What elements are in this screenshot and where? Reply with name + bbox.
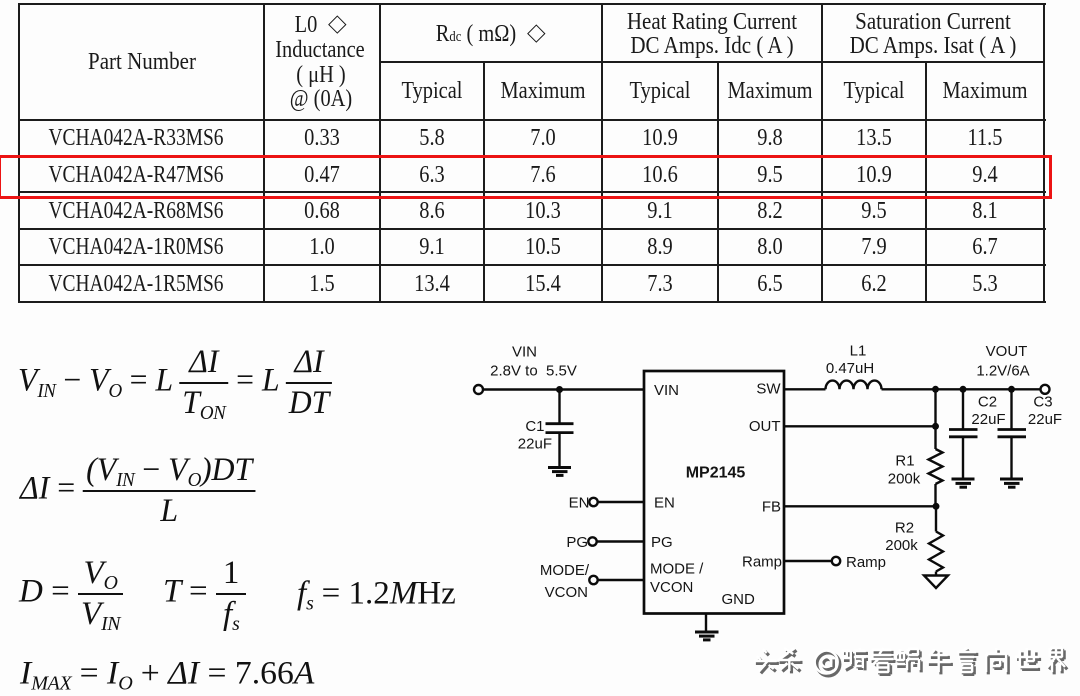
svg-text:C1: C1 bbox=[525, 418, 544, 435]
wire GND pin to ground bbox=[705, 614, 707, 632]
wire EN terminal to IC pin EN bbox=[598, 501, 644, 503]
watermark shadow bbox=[756, 650, 1067, 676]
wire MODE/VCON terminal to IC pin bbox=[598, 579, 644, 581]
wire OUT pin to VOUT node bbox=[784, 425, 936, 427]
wire Ramp pin to Ramp terminal bbox=[784, 560, 832, 562]
row lines bbox=[18, 155, 1046, 157]
terminal PG bbox=[588, 537, 596, 545]
junction node VOUT-C3 bbox=[1008, 386, 1015, 393]
svg-text:GND: GND bbox=[722, 591, 756, 608]
wire VOUT node down to C2 bbox=[962, 389, 964, 429]
junction node VIN-C1 bbox=[556, 386, 563, 393]
watermark white top bbox=[754, 648, 1065, 674]
capacitor C1 bbox=[546, 422, 574, 425]
ground below C3 bbox=[1000, 478, 1023, 481]
wire FB node down to R2 bbox=[935, 506, 937, 531]
wire R2 to ground triangle bbox=[935, 572, 937, 576]
svg-text:EN: EN bbox=[654, 494, 675, 511]
horizontal header split bbox=[379, 61, 1045, 63]
svg-text:MODE/: MODE/ bbox=[540, 562, 590, 579]
terminal EN bbox=[589, 498, 597, 506]
svg-text:Ramp: Ramp bbox=[742, 553, 782, 570]
terminal MODE/VCON bbox=[589, 576, 597, 584]
wire L1 to VOUT terminal bbox=[882, 388, 1042, 390]
svg-text:R2: R2 bbox=[895, 519, 914, 536]
svg-text:VCON: VCON bbox=[650, 579, 693, 596]
ground below C2 bbox=[952, 478, 975, 481]
junction node OUT-R1 bbox=[932, 423, 939, 430]
junction node VOUT-R1 bbox=[932, 386, 939, 393]
svg-text:PG: PG bbox=[566, 534, 588, 551]
IC U1 MP2145 body bbox=[644, 371, 784, 614]
wire FB pin to divider node bbox=[784, 505, 936, 507]
wire VIN terminal to IC pin VIN bbox=[483, 388, 644, 390]
wire PG terminal to IC pin PG bbox=[597, 540, 644, 542]
capacitor C2 bbox=[949, 428, 978, 431]
wire C2 to ground bbox=[962, 437, 964, 479]
capacitor C3 bbox=[998, 428, 1027, 431]
svg-text:R1: R1 bbox=[895, 453, 914, 470]
terminal VIN input port bbox=[474, 385, 483, 394]
equation 2 bbox=[20, 454, 255, 528]
svg-text:2.8V to 5.5V: 2.8V to 5.5V bbox=[490, 363, 577, 380]
svg-text:1.2V/6A: 1.2V/6A bbox=[976, 362, 1029, 379]
svg-text:EN: EN bbox=[569, 494, 590, 511]
svg-text:C2: C2 bbox=[978, 393, 997, 410]
wire SW pin to inductor L1 bbox=[784, 388, 826, 390]
equation 1 bbox=[18, 346, 332, 420]
resistor R2 200k zigzag bbox=[929, 532, 943, 572]
svg-text:VOUT: VOUT bbox=[986, 343, 1028, 360]
svg-text:VCON: VCON bbox=[545, 584, 588, 601]
ground below C1 bbox=[548, 466, 571, 469]
wire VOUT node down to R1 bbox=[934, 389, 936, 449]
svg-text:L1: L1 bbox=[850, 342, 867, 359]
terminal VOUT output port bbox=[1041, 385, 1050, 394]
svg-text:FB: FB bbox=[762, 499, 781, 516]
highlight red box bbox=[0, 155, 1052, 199]
svg-text:0.47uH: 0.47uH bbox=[826, 360, 874, 377]
svg-text:C3: C3 bbox=[1033, 393, 1052, 410]
svg-text:PG: PG bbox=[651, 534, 673, 551]
resistor R1 200k zigzag bbox=[929, 449, 943, 484]
junction node FB divider bbox=[933, 503, 940, 510]
wire C1 to ground bbox=[558, 433, 560, 467]
svg-text:200k: 200k bbox=[885, 537, 918, 554]
vertical grid lines lower part bbox=[483, 61, 485, 301]
equation 4 bbox=[20, 658, 314, 691]
wire R1 to FB node bbox=[934, 484, 936, 506]
terminal Ramp bbox=[832, 557, 840, 565]
ground below GND pin bbox=[695, 631, 719, 634]
svg-text:OUT: OUT bbox=[749, 418, 781, 435]
svg-text:22uF: 22uF bbox=[518, 436, 552, 453]
vertical grid lines full height bbox=[263, 3, 265, 301]
svg-text:SW: SW bbox=[756, 381, 781, 398]
data rows bbox=[49, 126, 224, 150]
ground triangle below R2 bbox=[924, 576, 948, 589]
svg-text:22uF: 22uF bbox=[1028, 411, 1062, 428]
equation 3 bbox=[19, 557, 123, 631]
svg-text:VIN: VIN bbox=[654, 382, 679, 399]
wire VIN node down to C1 bbox=[558, 390, 560, 424]
junction node VOUT-C2 bbox=[960, 386, 967, 393]
inductor L1 0.47uH bbox=[826, 381, 882, 390]
svg-text:VIN: VIN bbox=[512, 343, 537, 360]
svg-text:MP2145: MP2145 bbox=[686, 464, 746, 481]
svg-text:MODE /: MODE / bbox=[650, 560, 704, 577]
wire VOUT node down to C3 bbox=[1010, 389, 1012, 429]
svg-text:22uF: 22uF bbox=[971, 411, 1005, 428]
table outer border bbox=[18, 3, 1046, 5]
svg-text:200k: 200k bbox=[888, 471, 921, 488]
header texts bbox=[88, 50, 196, 74]
svg-text:Ramp: Ramp bbox=[846, 554, 886, 571]
wire C3 to ground bbox=[1010, 437, 1012, 479]
